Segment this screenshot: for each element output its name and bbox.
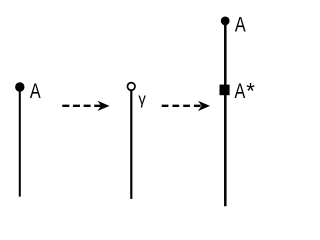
svg-text:A: A: [235, 79, 246, 103]
svg-text:γ: γ: [138, 91, 146, 108]
svg-text:A: A: [235, 13, 246, 37]
svg-text:A: A: [30, 79, 41, 103]
svg-text:*: *: [246, 79, 255, 104]
